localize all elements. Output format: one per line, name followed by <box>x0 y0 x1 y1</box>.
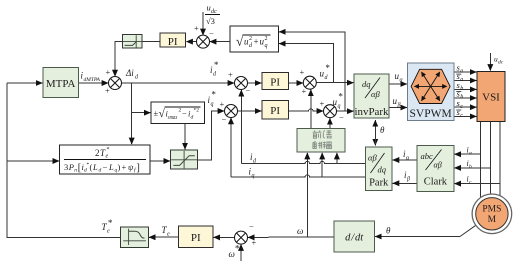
svg-text:*: * <box>108 218 113 228</box>
svg-text:a: a <box>469 151 472 157</box>
svg-text:*: * <box>211 90 216 100</box>
svg-text:+: + <box>106 67 111 77</box>
svg-text:√3: √3 <box>206 16 215 26</box>
svg-text:β: β <box>397 103 401 109</box>
svg-text:abc: abc <box>421 151 434 161</box>
svg-text:+: + <box>302 86 307 96</box>
svg-text:invPark: invPark <box>355 107 390 118</box>
svg-text:2: 2 <box>265 36 268 42</box>
svg-text:*: * <box>235 244 240 254</box>
svg-text:b: b <box>460 95 463 101</box>
svg-text:PI: PI <box>270 105 280 117</box>
svg-text:−: − <box>246 85 251 95</box>
svg-text:+: + <box>220 99 225 109</box>
svg-text:+: + <box>105 86 110 96</box>
svg-text:αβ: αβ <box>368 153 377 163</box>
svg-text:−: − <box>182 109 187 119</box>
svg-text:MTPA: MTPA <box>46 78 76 90</box>
svg-text:d: d <box>325 75 329 81</box>
svg-text:smax: smax <box>168 115 178 121</box>
svg-text:d: d <box>135 75 139 81</box>
svg-text:*: * <box>325 63 330 73</box>
svg-text:a: a <box>460 77 463 83</box>
svg-text:b: b <box>469 164 472 170</box>
svg-text:α: α <box>406 156 410 162</box>
svg-text:L: L <box>108 162 114 172</box>
svg-text:dMTPA: dMTPA <box>84 77 101 83</box>
svg-text:+: + <box>320 99 325 109</box>
svg-text:3: 3 <box>64 162 68 172</box>
svg-text:2: 2 <box>249 36 252 42</box>
svg-text:+: + <box>228 70 233 80</box>
svg-text:PI: PI <box>191 232 201 244</box>
svg-text:]: ] <box>137 162 140 173</box>
svg-text:q: q <box>211 102 214 108</box>
svg-text:q: q <box>265 43 268 49</box>
svg-text:β: β <box>406 177 410 183</box>
svg-text:e: e <box>107 229 110 235</box>
svg-text:√: √ <box>159 107 166 120</box>
svg-text:e: e <box>167 232 170 238</box>
svg-text:dq: dq <box>362 79 371 89</box>
svg-text:d: d <box>99 168 102 174</box>
svg-text:α: α <box>400 78 404 84</box>
svg-text:L: L <box>92 162 98 172</box>
svg-text:e: e <box>106 154 109 160</box>
svg-text:d: d <box>84 168 87 174</box>
svg-text:PMS: PMS <box>482 205 501 215</box>
svg-text:PI: PI <box>168 36 178 48</box>
svg-text:+: + <box>194 23 199 33</box>
svg-text:+: + <box>252 238 257 248</box>
svg-text:+: + <box>300 67 305 77</box>
svg-text:+: + <box>122 162 127 172</box>
svg-text:d: d <box>191 115 194 121</box>
svg-text:*: * <box>107 147 110 153</box>
svg-text:+: + <box>254 37 259 47</box>
svg-text:*: * <box>214 60 219 70</box>
svg-text:VSI: VSI <box>482 92 500 104</box>
svg-text:*2: *2 <box>194 108 200 114</box>
svg-text:P: P <box>68 162 74 172</box>
svg-text:θ: θ <box>386 226 391 236</box>
svg-text:Park: Park <box>369 178 389 189</box>
svg-text:Clark: Clark <box>424 177 448 188</box>
svg-text:d: d <box>213 72 217 78</box>
svg-text:√: √ <box>236 34 244 49</box>
svg-text:−: − <box>103 162 108 172</box>
svg-text:c: c <box>460 113 463 119</box>
svg-text:SVPWM: SVPWM <box>410 108 452 120</box>
svg-text:−: − <box>222 114 227 124</box>
svg-text:Δi: Δi <box>125 68 134 78</box>
svg-text:dq: dq <box>378 165 387 175</box>
svg-text:*: * <box>338 92 343 102</box>
svg-text:αβ: αβ <box>434 161 442 170</box>
svg-text:−: − <box>209 29 214 39</box>
svg-text:−: − <box>249 222 254 232</box>
svg-text:2: 2 <box>95 148 100 158</box>
svg-text:q: q <box>252 173 255 179</box>
svg-text:αβ: αβ <box>371 89 380 99</box>
svg-text:q: q <box>338 104 341 110</box>
svg-text:ω: ω <box>297 226 303 236</box>
svg-text:): ) <box>118 162 121 172</box>
svg-text:d / dt: d / dt <box>345 233 364 244</box>
svg-text:c: c <box>460 104 463 110</box>
svg-text:M: M <box>488 215 497 225</box>
svg-text:c: c <box>469 180 472 186</box>
svg-text:PI: PI <box>270 77 280 89</box>
svg-text:−: − <box>339 112 344 122</box>
svg-text:dc: dc <box>498 60 504 66</box>
svg-text:θ: θ <box>380 125 385 135</box>
